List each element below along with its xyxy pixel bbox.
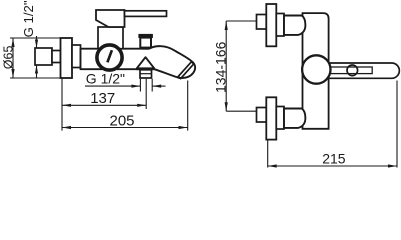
diverter knob collar: [143, 47, 150, 49]
wire: spout tip extension: [187, 81, 189, 131]
arrow: G1/2 outlet right: [131, 85, 140, 88]
handle lever (side view): [125, 11, 167, 17]
arrow: 215 right: [388, 164, 397, 167]
cartridge housing: [98, 27, 123, 49]
arrow: 134-166 up: [225, 21, 228, 30]
handle knob circle: [302, 55, 330, 83]
dial tick: [107, 50, 112, 62]
wire: 215 right extension: [396, 81, 398, 168]
handle cap with diagonal base: [96, 10, 125, 27]
wire: G1/2 outlet dim line left: [85, 85, 140, 87]
lever stem: [329, 67, 372, 74]
aerator band on spout tip: [178, 62, 193, 79]
svg-text:205: 205: [110, 113, 135, 130]
dimension 215: [268, 165, 397, 167]
shower outlet cone: [137, 57, 154, 68]
wire: upper leader: [226, 20, 256, 22]
stub neck: [52, 51, 61, 63]
arrow: Ø65 down: [11, 69, 14, 78]
nipple groove: [140, 73, 152, 75]
arrow: G1/2 outlet left: [152, 85, 161, 88]
wire: Ø65 dimension line: [12, 38, 14, 78]
wall supply stub: [35, 48, 52, 65]
upper escutcheon: [266, 4, 276, 46]
connector behind escutcheon: [72, 45, 81, 68]
upper nut2: [276, 14, 284, 37]
wire: Ø65 bottom extension line: [10, 77, 71, 79]
lever (front view, stadium): [320, 63, 399, 78]
dimension 137: [62, 104, 146, 106]
lower connector with bulge: [284, 109, 305, 128]
arrow: G1/2 up to stub bottom: [35, 65, 38, 74]
lower nut2: [276, 107, 284, 130]
arrow: 134-166 down: [225, 102, 228, 111]
wire: 215 left extension: [267, 140, 269, 168]
shower outlet base thick line: [136, 68, 155, 70]
escutcheon (side view): [61, 38, 73, 78]
body column (front view): [303, 13, 329, 129]
wire: G1/2 outlet dim line right: [152, 85, 165, 87]
arrow: G1/2 down to stub top: [35, 40, 38, 49]
arrow: 137 left: [62, 104, 71, 107]
arrow: 215 left: [268, 164, 277, 167]
lower nut1: [257, 108, 267, 123]
diverter knob flange: [139, 34, 153, 37]
svg-text:215: 215: [322, 150, 346, 166]
wire: G1/2 dim line upper: [36, 36, 38, 48]
wire: outlet extension left: [139, 79, 141, 92]
svg-text:Ø65: Ø65: [1, 46, 15, 70]
arrow: Ø65 up: [11, 38, 14, 47]
svg-text:137: 137: [90, 90, 115, 107]
arrow: 205 left: [62, 126, 71, 129]
wire: lower leader: [226, 110, 256, 112]
wire: outlet extension right: [151, 79, 153, 92]
upper connector with bulge: [284, 16, 305, 35]
wire: left extension (escutcheon) down: [61, 79, 63, 131]
shower outlet nipple: [140, 70, 152, 78]
svg-text:G 1/2": G 1/2": [86, 71, 125, 87]
lower escutcheon: [266, 97, 276, 139]
upper nut1: [257, 15, 267, 30]
temperature dial circle: [97, 45, 122, 70]
wire: G1/2 dim line lower: [36, 65, 38, 78]
wire: Ø65 top extension line: [10, 37, 61, 39]
wire: 134-166 dim line: [225, 21, 227, 111]
dimension 205: [62, 127, 188, 129]
faucet body + spout outline: [81, 46, 196, 78]
wire: outlet centre extension: [145, 79, 147, 109]
diverter knob body: [140, 38, 151, 48]
arrow: 205 right: [179, 126, 188, 129]
lever pivot circle: [347, 65, 358, 76]
arrow: 137 right: [137, 104, 146, 107]
svg-text:G 1/2": G 1/2": [21, 0, 36, 37]
